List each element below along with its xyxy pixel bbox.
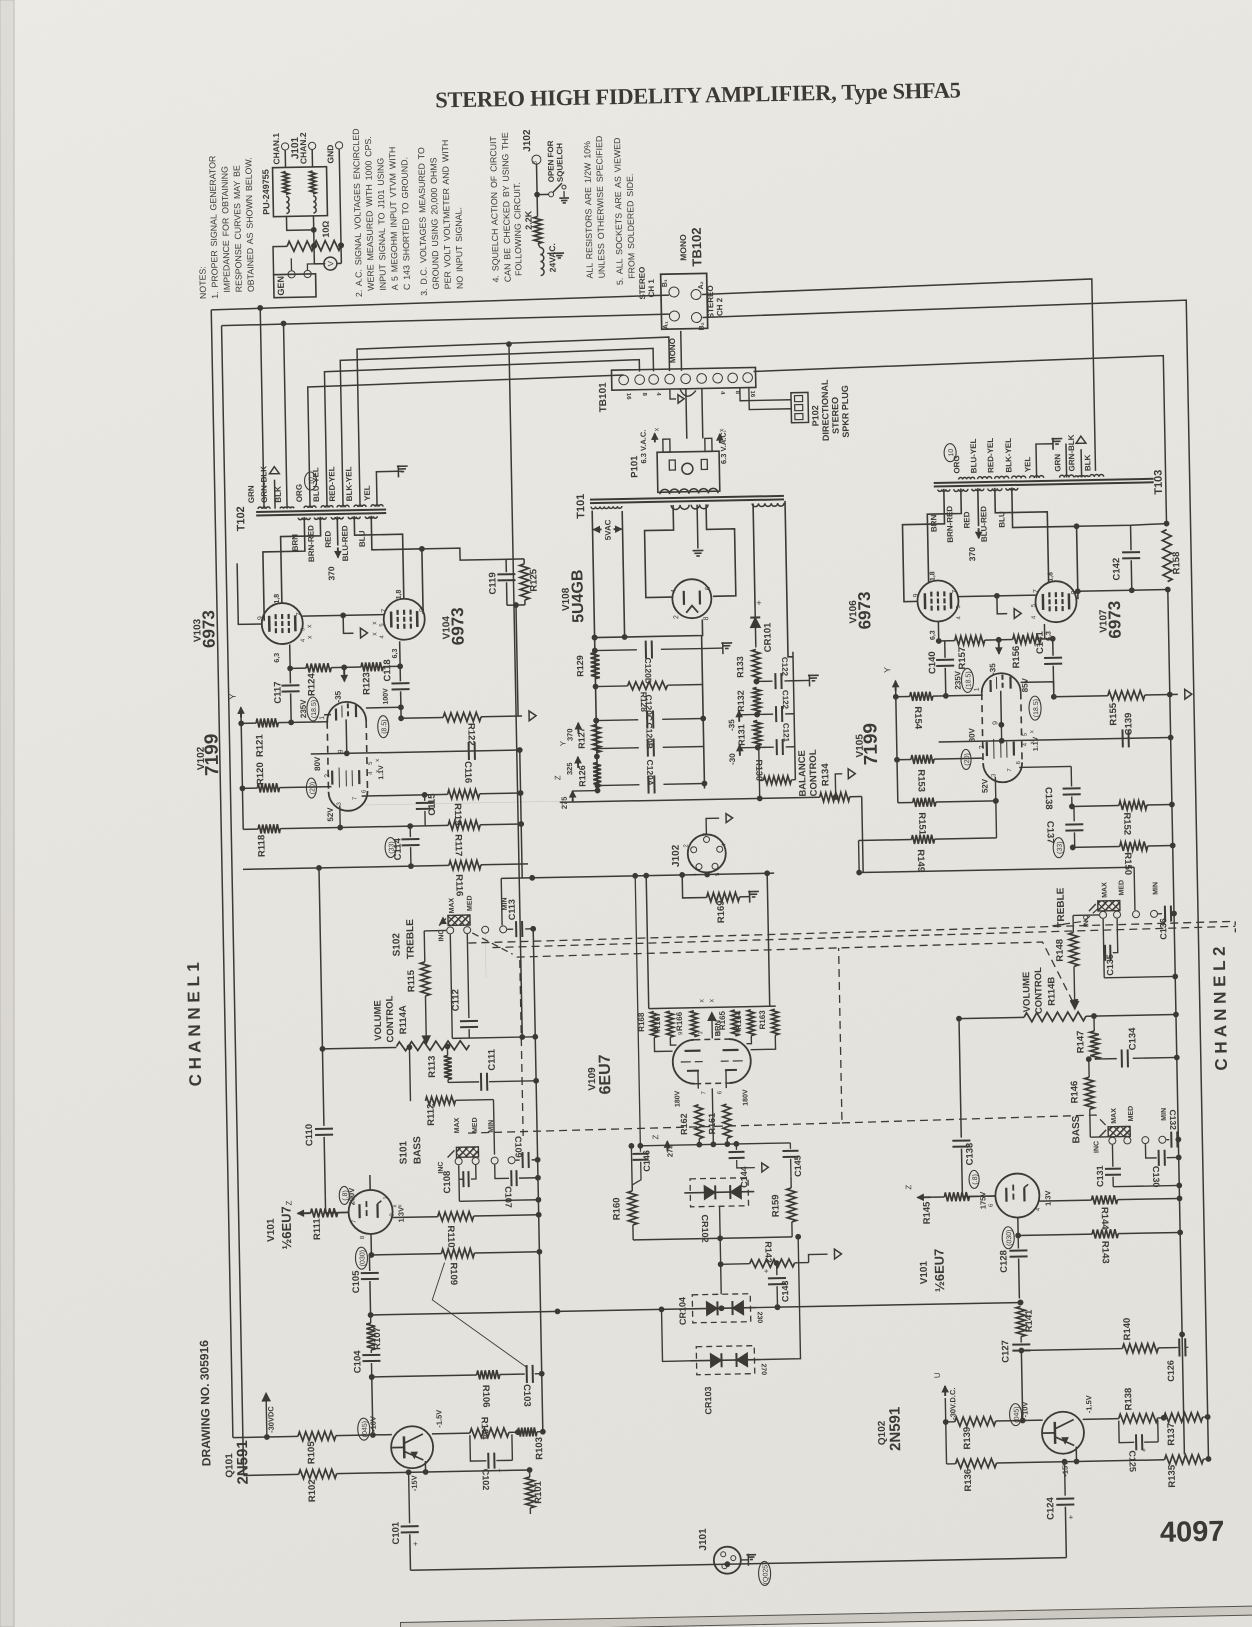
V101 plate wire	[369, 1175, 371, 1190]
svg-text:MED: MED	[472, 1117, 479, 1133]
capacitor C146	[635, 876, 640, 1152]
V109 left wires	[654, 1037, 672, 1051]
svg-text:MAX: MAX	[1111, 1108, 1118, 1124]
svg-text:C H A N N E L 2: C H A N N E L 2	[1210, 946, 1231, 1070]
dash link treble	[468, 921, 1235, 943]
T103 circled 10	[944, 444, 956, 462]
svg-text:Z: Z	[284, 1200, 293, 1205]
capacitor C128	[1017, 1236, 1019, 1249]
terminal CHAN.2	[308, 142, 315, 149]
V102 plate wire	[366, 706, 401, 709]
svg-text:Z: Z	[553, 775, 562, 780]
svg-text:R117: R117	[452, 834, 463, 856]
gnd c120	[701, 644, 703, 649]
TB102 terminal A1	[669, 311, 679, 321]
svg-text:R107: R107	[372, 1327, 383, 1350]
svg-text:BASS: BASS	[412, 1136, 424, 1164]
svg-text:3: 3	[991, 773, 997, 777]
svg-text:R150: R150	[1122, 852, 1133, 875]
svg-text:1.3V: 1.3V	[397, 1207, 406, 1223]
rail v109 mid	[640, 1143, 790, 1146]
capacitor C122b	[757, 713, 773, 715]
svg-text:-35: -35	[727, 719, 736, 731]
resistor R128	[596, 685, 628, 688]
capacitor C130	[1145, 1144, 1156, 1158]
row R120	[242, 787, 257, 789]
svg-text:C120C: C120C	[644, 694, 655, 721]
svg-text:C116: C116	[462, 761, 473, 783]
svg-text:C110: C110	[304, 1124, 315, 1146]
svg-text:VOLUME: VOLUME	[1021, 972, 1033, 1013]
svg-text:R115: R115	[406, 969, 417, 992]
wire spk ch1 bot	[221, 314, 669, 326]
capacitor C143	[776, 1263, 778, 1275]
svg-text:C139: C139	[1123, 713, 1134, 736]
svg-text:1: 1	[319, 716, 326, 720]
wire spk ch2 bot	[702, 300, 1208, 1466]
T103 blu wire	[1012, 486, 1078, 600]
svg-text:R140: R140	[1122, 1318, 1133, 1341]
bus right main	[1168, 590, 1185, 1455]
svg-text:1.1V: 1.1V	[1033, 736, 1040, 751]
svg-text:7: 7	[353, 796, 359, 800]
svg-text:+: +	[1067, 1514, 1076, 1519]
V102 triode internals	[335, 709, 337, 721]
svg-text:J102: J102	[522, 129, 533, 152]
arrow -35 supply	[738, 711, 740, 722]
R115 top wire	[423, 931, 426, 962]
wire box bottom	[286, 216, 313, 231]
svg-text:7: 7	[381, 609, 388, 613]
svg-text:A₁: A₁	[663, 321, 670, 329]
capacitor C118	[399, 666, 401, 681]
wire spk ch2 top	[702, 279, 1096, 478]
svg-text:CR101: CR101	[762, 622, 774, 652]
brn arrow	[711, 1013, 713, 1015]
svg-text:x: x	[699, 999, 706, 1003]
svg-text:2: 2	[684, 843, 690, 847]
TB101 mono jumper	[680, 389, 696, 397]
svg-text:GRN-BLK: GRN-BLK	[1067, 434, 1077, 471]
T103 blu-red wire	[995, 487, 1049, 584]
svg-text:R103: R103	[534, 1437, 545, 1460]
svg-text:MONO: MONO	[668, 338, 677, 363]
svg-text:MAX: MAX	[454, 1117, 461, 1133]
svg-text:(20): (20)	[964, 753, 971, 766]
svg-text:B₂: B₂	[699, 322, 706, 330]
row R151	[898, 801, 913, 803]
svg-text:OBTAINED AS SHOWN BELOW.: OBTAINED AS SHOWN BELOW.	[243, 157, 256, 292]
svg-text:80V: 80V	[313, 756, 322, 771]
R101 wire	[426, 1470, 530, 1472]
CR103 wires	[662, 1309, 691, 1362]
svg-text:BLK-YEL: BLK-YEL	[344, 466, 354, 501]
row R138 R137	[1083, 1418, 1119, 1421]
capacitor C141	[1052, 639, 1054, 656]
svg-text:R136: R136	[963, 1469, 974, 1492]
T103 secondary coils	[959, 477, 975, 479]
resistor network L1	[283, 171, 289, 194]
svg-text:7199: 7199	[201, 733, 223, 776]
capacitor C102	[470, 1435, 486, 1461]
svg-text:5U4GB: 5U4GB	[569, 569, 587, 623]
svg-text:C142: C142	[1111, 558, 1122, 581]
svg-text:10: 10	[308, 477, 315, 485]
P102 wires	[740, 387, 791, 401]
V101 grid wire	[325, 1195, 348, 1212]
svg-text:STEREO: STEREO	[830, 397, 841, 434]
J102 top wire	[706, 818, 719, 834]
svg-text:2: 2	[979, 745, 986, 749]
svg-text:CR103: CR103	[703, 1386, 714, 1414]
svg-text:200V: 200V	[347, 1188, 356, 1206]
Q102 emitter stem	[1075, 1446, 1077, 1461]
tube V105 outline	[981, 673, 1020, 693]
S102 min wire	[484, 934, 487, 978]
svg-text:52V: 52V	[326, 807, 335, 822]
resistor 10 ohm	[287, 240, 341, 251]
tube V108	[672, 579, 712, 619]
svg-text:x: x	[1029, 730, 1035, 733]
svg-text:ORG: ORG	[295, 484, 304, 502]
svg-text:NO INPUT SIGNAL.: NO INPUT SIGNAL.	[453, 207, 465, 289]
capacitor C145	[789, 1143, 791, 1149]
svg-text:STEREO: STEREO	[637, 267, 647, 300]
svg-text:SQUELCH: SQUELCH	[555, 143, 565, 183]
T101 p101 coil	[660, 488, 718, 494]
svg-text:100V: 100V	[383, 688, 390, 705]
TB101 out triangle	[670, 389, 676, 399]
Q101 col stem real	[372, 1377, 373, 1435]
V103 outer wire	[237, 563, 262, 624]
capacitor C110	[319, 868, 324, 1126]
T102 brn wire	[262, 517, 306, 621]
svg-text:C H A N N E L 1: C H A N N E L 1	[184, 962, 205, 1086]
T102 blu-red wire	[354, 515, 404, 600]
V107 internals	[1042, 594, 1045, 610]
svg-text:(33): (33)	[388, 841, 395, 854]
svg-text:C126: C126	[1166, 1360, 1176, 1382]
T101 right down	[753, 504, 755, 608]
R112	[409, 1047, 410, 1101]
right supply bus	[702, 636, 705, 789]
wire grn t102 up	[260, 307, 264, 509]
svg-text:R164: R164	[734, 1010, 743, 1030]
svg-text:A₂: A₂	[698, 281, 705, 289]
treble right terminals	[1099, 911, 1106, 918]
resistor R169	[707, 892, 740, 902]
row R119	[362, 794, 448, 796]
J101 ground	[741, 1559, 748, 1561]
svg-text:370: 370	[967, 547, 977, 562]
row R117	[340, 825, 448, 827]
svg-text:(8.5): (8.5)	[381, 719, 388, 734]
svg-text:5. ALL SOCKETS ARE AS VIEW: 5. ALL SOCKETS ARE AS VIEWED	[612, 137, 625, 285]
bass right terminals	[1109, 1137, 1116, 1144]
svg-text:BRN-RED: BRN-RED	[945, 506, 955, 543]
svg-text:1.3V: 1.3V	[1043, 1190, 1052, 1206]
svg-text:R144: R144	[1099, 1207, 1110, 1231]
capacitor C142	[1130, 525, 1132, 550]
transistor Q102	[1042, 1411, 1085, 1454]
bass right bottom	[1113, 1185, 1179, 1186]
svg-text:(.8): (.8)	[972, 1174, 979, 1185]
svg-text:C105: C105	[351, 1270, 362, 1294]
T102 primary coils	[298, 518, 310, 520]
svg-text:NOTES:: NOTES:	[197, 266, 208, 299]
svg-text:6973: 6973	[199, 610, 219, 648]
capacitor C126	[1176, 1346, 1178, 1348]
dash treble right arm	[1052, 907, 1100, 926]
transformer T102 core	[256, 510, 386, 512]
V101R cath stem	[1017, 1218, 1019, 1236]
capacitor C114	[409, 826, 411, 837]
feedback diagonal	[432, 1261, 528, 1370]
row R102	[244, 1474, 299, 1475]
svg-text:-35: -35	[988, 663, 997, 675]
svg-text:BRN-RED: BRN-RED	[306, 525, 316, 562]
dash S102 arm	[472, 932, 512, 955]
V101R values	[969, 1170, 979, 1188]
gnd 24vac	[547, 252, 557, 254]
svg-text:R156: R156	[1011, 646, 1022, 669]
capacitor C120B	[597, 747, 639, 750]
svg-text:Z: Z	[651, 1134, 660, 1139]
T102 blu wire	[371, 515, 423, 615]
svg-text:C104: C104	[352, 1350, 363, 1374]
svg-text:MED: MED	[467, 895, 474, 911]
rail mid right y877	[859, 867, 1134, 872]
svg-text:VOLUME: VOLUME	[373, 1000, 385, 1041]
svg-text:MAX: MAX	[449, 897, 456, 913]
R114B pot	[959, 1017, 1024, 1018]
resistor R115	[420, 962, 430, 996]
V105 left bus	[896, 683, 898, 803]
svg-text:C143: C143	[780, 1280, 790, 1302]
svg-text:R116: R116	[453, 874, 464, 896]
coil 24VAC	[540, 247, 544, 275]
T101 coil right	[752, 503, 784, 507]
row R104 R103	[432, 1432, 470, 1435]
row C134	[1095, 1058, 1117, 1060]
svg-text:R151: R151	[916, 812, 927, 836]
wire blk t102 up	[284, 323, 288, 508]
V101R internals	[1005, 1188, 1007, 1202]
svg-text:V101: V101	[266, 1218, 277, 1242]
R113	[446, 1046, 448, 1055]
svg-text:5: 5	[368, 761, 374, 765]
svg-text:T102: T102	[235, 506, 247, 531]
capacitor C103	[521, 1373, 525, 1375]
svg-text:370: 370	[326, 566, 336, 581]
capacitor C121	[758, 746, 774, 748]
svg-text:C140: C140	[927, 651, 938, 674]
svg-text:+: +	[1141, 1448, 1148, 1452]
svg-text:C145: C145	[793, 1155, 803, 1177]
svg-text:(18.5): (18.5)	[1033, 699, 1040, 717]
svg-text:1,8: 1,8	[1047, 572, 1054, 582]
capacitor C113	[507, 928, 513, 930]
S102 wire max	[450, 934, 452, 1038]
svg-text:YEL: YEL	[363, 485, 372, 501]
rail y800	[560, 797, 820, 802]
resistor R125	[523, 559, 525, 564]
svg-text:4: 4	[1031, 615, 1037, 619]
diode box CR102	[690, 1178, 749, 1207]
svg-text:YEL: YEL	[1023, 456, 1032, 472]
R169 feed	[682, 874, 706, 897]
svg-text:C136: C136	[1158, 918, 1168, 940]
V101 values	[339, 1186, 349, 1204]
svg-text:TREBLE: TREBLE	[1055, 887, 1067, 928]
svg-text:x: x	[371, 621, 378, 625]
svg-text:C117: C117	[272, 681, 283, 703]
svg-text:R146: R146	[1069, 1081, 1080, 1104]
arrow 275 mid	[666, 1141, 668, 1151]
svg-text:3: 3	[337, 801, 343, 805]
svg-text:4097: 4097	[1160, 1516, 1225, 1549]
Q101 vals	[358, 1418, 370, 1440]
T101 coil mid	[671, 505, 689, 510]
switch bass right	[1108, 1126, 1130, 1136]
meter V	[324, 257, 337, 270]
capacitor C137	[1073, 806, 1075, 821]
row grid2 right	[939, 738, 1171, 742]
V105 triode internals	[989, 680, 991, 692]
svg-text:R126: R126	[577, 765, 587, 787]
svg-text:R101: R101	[533, 1480, 544, 1504]
svg-text:175V: 175V	[978, 1192, 987, 1210]
svg-text:BLU-YEL: BLU-YEL	[969, 438, 979, 473]
row R109	[371, 1254, 441, 1255]
svg-text:C101: C101	[391, 1521, 402, 1545]
svg-text:1,8: 1,8	[274, 594, 281, 604]
capacitor C108	[458, 1165, 461, 1201]
svg-text:J101: J101	[290, 136, 301, 159]
svg-text:C109: C109	[513, 1136, 523, 1158]
Q102 vals	[1009, 1404, 1021, 1426]
wire mid selector vertical	[509, 344, 522, 1037]
svg-text:R119: R119	[452, 803, 463, 825]
capacitor C104	[370, 1350, 372, 1353]
capacitor C133	[959, 1019, 961, 1138]
capacitor C136	[1158, 913, 1162, 915]
svg-text:C107: C107	[503, 1186, 513, 1208]
svg-text:52V: 52V	[980, 778, 989, 793]
svg-text:-30VDC: -30VDC	[266, 1406, 276, 1433]
capacitor C132	[1166, 1139, 1169, 1141]
svg-text:2. A.C. SIGNAL VOLTAGES ENCI: 2. A.C. SIGNAL VOLTAGES ENCIRCLED	[351, 128, 364, 297]
U -30VDC label	[944, 1386, 946, 1396]
svg-text:6: 6	[705, 586, 712, 590]
svg-text:J101: J101	[698, 1528, 709, 1551]
terminal CHAN.1	[281, 143, 288, 150]
svg-text:5VAC: 5VAC	[603, 519, 612, 540]
svg-text:R131: R131	[736, 724, 746, 746]
svg-text:R135: R135	[1167, 1464, 1178, 1488]
svg-text:C146: C146	[641, 1150, 651, 1172]
svg-text:4: 4	[956, 616, 962, 620]
svg-text:ORG: ORG	[952, 455, 961, 473]
svg-text:C121: C121	[781, 723, 790, 743]
gen terminals	[288, 271, 295, 278]
capacitor C120A	[597, 784, 639, 787]
resistor R133	[752, 649, 761, 679]
capacitor C120D	[595, 649, 637, 652]
row R143	[1018, 1234, 1092, 1235]
svg-text:R153: R153	[915, 769, 926, 792]
svg-text:MED: MED	[1118, 880, 1125, 896]
svg-text:R138: R138	[1123, 1388, 1134, 1411]
arrow -35 left	[343, 668, 345, 681]
svg-text:T103: T103	[1152, 470, 1164, 495]
resistor R130	[759, 779, 763, 781]
svg-text:R112: R112	[426, 1104, 437, 1126]
svg-text:1: 1	[974, 687, 981, 691]
svg-text:TB102: TB102	[689, 227, 705, 266]
svg-text:MONO: MONO	[678, 234, 689, 261]
row R116	[243, 865, 449, 869]
resistor network L2	[310, 171, 316, 194]
svg-text:2: 2	[673, 615, 680, 619]
T102 secondary coils	[258, 507, 270, 509]
V101 internals	[358, 1204, 360, 1218]
svg-text:8: 8	[703, 616, 710, 620]
svg-text:R120: R120	[255, 762, 266, 785]
svg-text:24VAC.: 24VAC.	[547, 243, 558, 272]
row R142	[719, 1238, 721, 1264]
V108 right wire	[785, 501, 793, 657]
Q101 base row	[233, 1436, 267, 1439]
svg-text:(030): (030)	[359, 1250, 366, 1266]
resistors R168 R167 R166 R165 R164 R163	[650, 1011, 657, 1037]
svg-text:R159: R159	[770, 1194, 781, 1217]
svg-text:R106: R106	[480, 1385, 491, 1408]
bus left spk2 vertical	[222, 326, 244, 1476]
svg-text:RED-YEL: RED-YEL	[327, 466, 337, 501]
box PU-249755	[273, 167, 328, 217]
resistor R139	[944, 1398, 946, 1422]
svg-text:R157: R157	[957, 647, 968, 670]
T103 yel grn ground	[1036, 444, 1054, 478]
scan streak bottom	[400, 1606, 1252, 1627]
svg-text:R148: R148	[1054, 939, 1065, 962]
svg-text:5: 5	[956, 605, 962, 609]
diode box CR103	[696, 1346, 755, 1375]
svg-text:C113: C113	[507, 899, 517, 920]
svg-text:-30: -30	[728, 753, 737, 765]
svg-text:GEN: GEN	[276, 276, 286, 296]
resistor R141	[1018, 1300, 1023, 1305]
svg-text:J102: J102	[671, 844, 682, 867]
resistor R105	[267, 1435, 298, 1438]
svg-text:R149: R149	[915, 849, 926, 872]
svg-text:C128: C128	[998, 1250, 1009, 1273]
V102 left bus	[241, 709, 243, 829]
svg-text:-10V: -10V	[1020, 1402, 1029, 1418]
svg-text:INPUT SIGNAL TO J101 USING: INPUT SIGNAL TO J101 USING	[375, 158, 388, 291]
svg-text:CONTROL: CONTROL	[808, 749, 820, 796]
capacitor C119	[505, 559, 507, 572]
svg-text:CHAN.1: CHAN.1	[271, 133, 282, 165]
svg-text:CAN BE CHECKED BY USING T: CAN BE CHECKED BY USING THE	[500, 132, 513, 282]
svg-text:R110: R110	[445, 1225, 456, 1247]
tube V109	[672, 1040, 695, 1084]
svg-text:BLK: BLK	[1083, 454, 1092, 471]
svg-text:C103: C103	[521, 1384, 532, 1407]
wire tb101 right out	[753, 356, 1166, 532]
V105 pin9 wire	[1000, 691, 1003, 725]
